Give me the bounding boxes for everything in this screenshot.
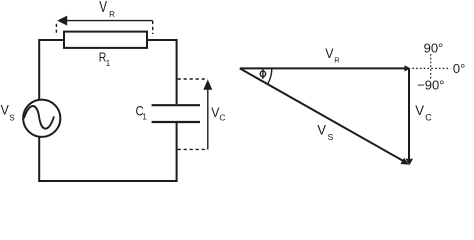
svg-text:C: C <box>219 112 225 122</box>
svg-text:0°: 0° <box>453 61 465 76</box>
svg-text:V: V <box>325 45 334 61</box>
svg-text:R: R <box>334 55 340 64</box>
svg-text:S: S <box>328 132 334 142</box>
svg-text:S: S <box>9 114 14 123</box>
svg-text:V: V <box>99 0 107 16</box>
svg-text:1: 1 <box>142 112 147 121</box>
svg-text:R: R <box>109 10 115 19</box>
svg-text:V: V <box>1 103 9 118</box>
svg-text:C: C <box>425 113 432 123</box>
svg-text:90°: 90° <box>424 40 444 55</box>
svg-text:V: V <box>317 122 326 138</box>
svg-text:V: V <box>415 102 424 118</box>
svg-text:V: V <box>211 105 219 120</box>
svg-text:1: 1 <box>106 59 111 68</box>
svg-text:−90°: −90° <box>417 77 444 92</box>
